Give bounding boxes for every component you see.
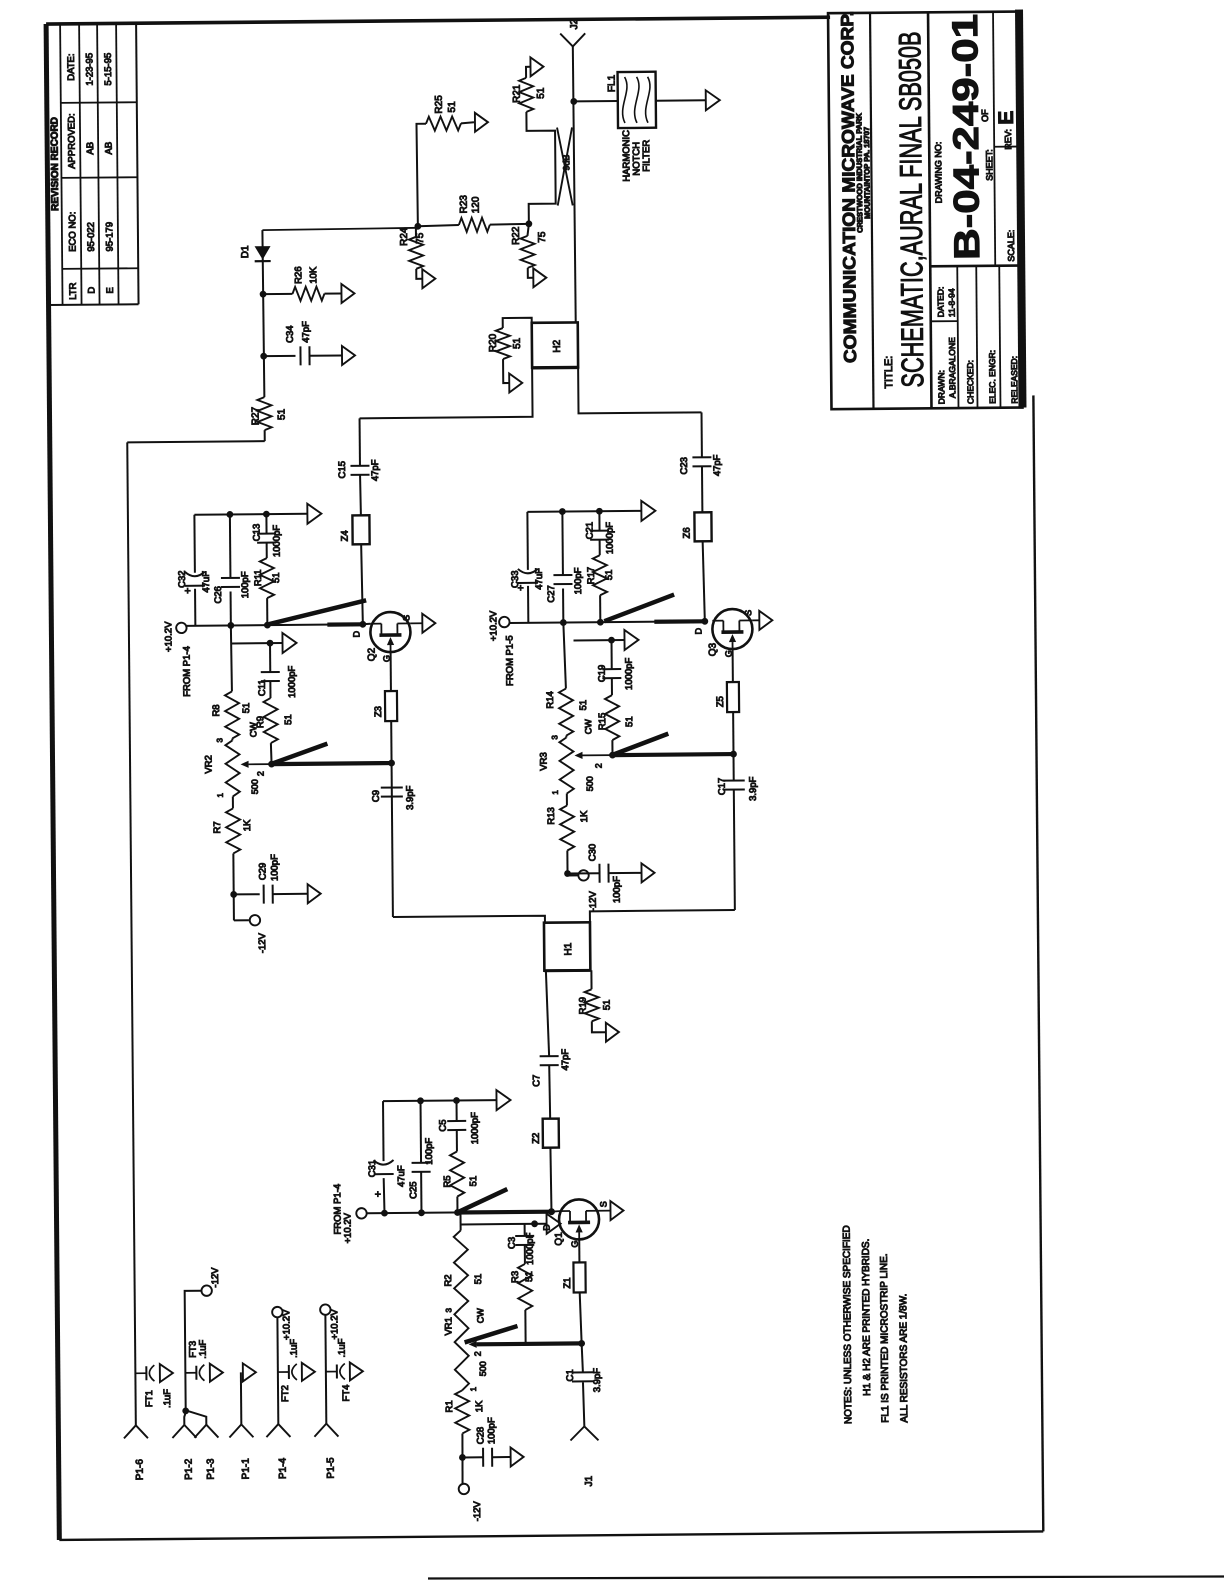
ground C29 [308,884,321,903]
svg-text:1000pF: 1000pF [604,522,615,555]
svg-text:FROM P1-4: FROM P1-4 [332,1184,343,1235]
impedance Z1 [562,1262,586,1292]
capacitor C15 [337,459,381,481]
terminal +10.2V (Q2 feed) [163,621,193,697]
svg-text:1: 1 [469,1386,478,1391]
svg-text:500: 500 [585,776,595,791]
svg-text:R2: R2 [443,1274,454,1286]
title block [828,10,1026,410]
wire C7 to H1 [546,971,549,1057]
feedthrough FT1 [135,1365,173,1408]
wire Z4-C15 [359,475,362,516]
svg-text:C26: C26 [213,586,224,604]
svg-text:1: 1 [551,790,560,795]
resistor R5 [442,1151,480,1212]
svg-text:SHEET:: SHEET: [984,149,994,181]
svg-text:Z3: Z3 [373,706,384,717]
svg-text:DATED:: DATED: [935,287,945,318]
transistor Q2 [351,612,411,663]
attenuator 9dB X [557,127,573,205]
svg-text:S: S [598,1201,608,1207]
wire Q3 output [703,541,705,621]
resistor R1 [444,1390,485,1433]
wedge Q1 drain [459,1189,507,1211]
wire Q3 gate [732,649,734,682]
svg-text:3: 3 [550,735,559,740]
connector P1-1 [229,1424,253,1479]
svg-text:C27: C27 [546,585,557,603]
svg-text:SCALE:: SCALE: [1006,230,1016,262]
svg-text:FILTER: FILTER [641,140,652,172]
capacitor C25 [408,1101,436,1213]
svg-text:51: 51 [447,101,458,113]
connector P1-4 [266,1424,290,1479]
svg-text:DRAWING NO:: DRAWING NO: [933,142,944,204]
svg-text:-12V: -12V [588,891,599,912]
resistor R20 [488,328,523,359]
svg-text:47pF: 47pF [370,459,381,481]
svg-text:1000pF: 1000pF [287,665,298,698]
wire P1-5 [324,1315,327,1424]
svg-text:47pF: 47pF [712,454,723,476]
svg-text:R11: R11 [253,569,264,586]
capacitor C17 [716,754,759,910]
svg-text:3.9pF: 3.9pF [405,785,416,810]
svg-text:120: 120 [471,196,482,213]
svg-text:REVISION RECORD: REVISION RECORD [49,117,61,211]
svg-text:47uF: 47uF [534,568,545,590]
terminal -12V (P1-2) [201,1267,221,1296]
svg-text:R13: R13 [546,807,557,825]
svg-text:R3: R3 [510,1271,521,1283]
capacitor C5 [438,1100,481,1151]
capacitor C21 [584,511,615,555]
svg-text:REV:: REV: [1003,129,1013,150]
svg-text:AB: AB [85,142,96,155]
wire -12V feed [185,1291,203,1411]
svg-text:R15: R15 [597,713,608,731]
node Q1 drain [548,1208,555,1215]
capacitor C32 [176,515,212,626]
wire Z6-C23 [701,466,703,512]
label C1 [565,1368,603,1393]
svg-text:TITLE:: TITLE: [883,356,895,389]
wire Q3 source gnd [752,619,759,621]
svg-text:.1uF: .1uF [337,1338,348,1357]
svg-text:1000pF: 1000pF [624,658,635,691]
resistor R3 [510,1264,536,1344]
svg-text:R26: R26 [293,266,304,284]
ground FT1 [160,1364,173,1382]
resistor R24 [399,226,426,269]
wire FL1 gnd [656,99,706,101]
wiper VR3 arrow [574,752,612,769]
svg-text:P1-2: P1-2 [184,1458,195,1480]
capacitor C11 [257,643,298,698]
svg-text:Q2: Q2 [367,647,378,661]
svg-text:10K: 10K [308,266,319,284]
svg-text:CHECKED:: CHECKED: [965,360,975,404]
terminal -12V (Q1) [459,1484,484,1522]
ground R24 [422,269,435,288]
svg-text:R7: R7 [212,821,223,833]
wire R14 row [563,623,566,689]
svg-text:+: + [182,588,194,594]
svg-text:C9: C9 [371,790,382,802]
svg-text:R20: R20 [488,333,499,352]
svg-text:100pF: 100pF [269,854,280,881]
svg-text:H1: H1 [563,942,574,955]
svg-text:Z2: Z2 [531,1133,542,1144]
diode D1 [240,228,418,262]
svg-text:47uF: 47uF [201,571,212,593]
terminal +10.2V (P1-4) [272,1307,292,1340]
svg-text:E: E [105,287,116,293]
svg-text:R1: R1 [444,1400,455,1412]
wire R27 node [259,230,267,397]
wire R24 gnd [416,269,422,279]
svg-text:3: 3 [215,738,224,743]
svg-text:1-23-95: 1-23-95 [84,53,95,86]
svg-text:R9: R9 [255,716,266,728]
ground Q1 gate rail [547,1214,561,1234]
wire output trunk [570,46,579,322]
svg-text:1000pF: 1000pF [525,1232,536,1265]
wire Q2 gate [390,652,392,691]
svg-text:MOUNTAINTOP PA. 18707: MOUNTAINTOP PA. 18707 [862,127,872,219]
svg-text:VR2: VR2 [203,755,214,774]
wire R13 to -12V [564,850,578,877]
svg-text:47pF: 47pF [301,321,312,343]
svg-text:-12V: -12V [210,1267,221,1288]
resistor R7 [212,796,253,853]
svg-text:ECO NO:: ECO NO: [67,212,78,252]
svg-text:C1: C1 [565,1369,576,1381]
wedge Q2 wiper [273,744,327,763]
ground R21 [530,57,543,76]
svg-text:C17: C17 [717,778,728,796]
resistor R23 [418,194,529,232]
label harmonic notch filter [621,130,652,182]
svg-text:S: S [743,610,753,616]
wiper VR2 arrow [241,760,272,776]
svg-text:P1-4: P1-4 [278,1457,289,1479]
wire coupler bracket [526,112,555,224]
ground FT3 [210,1364,223,1382]
svg-text:R25: R25 [434,95,445,114]
ground Q1 rail [496,1090,510,1110]
svg-text:P1-6: P1-6 [135,1459,146,1481]
svg-text:FL1 IS PRINTED MICROSTRIP LINE: FL1 IS PRINTED MICROSTRIP LINE. [879,1253,891,1422]
svg-text:100pF: 100pF [424,1138,435,1165]
wire R27 left [264,430,266,441]
svg-text:C30: C30 [587,844,598,862]
wire P1-1 gnd [240,1372,242,1424]
capacitor C27 [545,511,584,622]
svg-text:1K: 1K [579,810,590,822]
svg-text:Z6: Z6 [682,527,693,538]
svg-text:.1uF: .1uF [162,1389,173,1408]
wire C9 to H1 [393,916,545,924]
ground FT2 [302,1363,315,1381]
resistor R15 [597,695,636,755]
svg-text:51: 51 [276,408,287,420]
svg-text:LTR: LTR [68,282,79,299]
svg-text:C23: C23 [679,457,690,475]
ground Q2 source [422,614,435,633]
wire VR3 wiper thick [613,754,734,755]
wire Q1 gate [578,1239,580,1262]
wire R2 row [457,1212,460,1230]
feedthrough FT3 [185,1339,209,1380]
wire Q1 drain lead [551,1210,559,1213]
ground Q1 source [610,1201,623,1220]
svg-text:C28: C28 [475,1427,486,1445]
resistor R8 [211,691,252,738]
ground C34 [342,346,355,365]
svg-text:3: 3 [444,1308,453,1313]
svg-text:R8: R8 [211,704,222,716]
svg-text:.1uF: .1uF [289,1339,300,1358]
wire Q1 bypass rail [383,1097,497,1105]
wire Q1 gate rail [461,1220,547,1228]
resistor R9 [255,698,295,764]
wire R25 gnd [461,122,474,123]
svg-text:Q1: Q1 [554,1232,565,1246]
wire C17 to H1 [590,910,735,922]
svg-text:2: 2 [256,771,266,776]
capacitor C34 [263,321,342,366]
wire Q2 +10.2V bus [186,621,363,629]
svg-text:C34: C34 [285,325,296,343]
svg-text:C21: C21 [584,522,595,540]
resistor R21 [512,78,547,112]
capacitor C19 [596,640,634,695]
svg-text:D: D [86,287,97,294]
potentiometer VR2 [203,722,260,798]
svg-text:J1: J1 [584,1475,595,1486]
wire P1-6 riser [127,441,264,442]
svg-text:R19: R19 [578,997,589,1015]
wire Q2 output [361,544,363,624]
svg-text:500: 500 [478,1361,488,1376]
svg-text:SCHEMATIC,AURAL FINAL SB050B: SCHEMATIC,AURAL FINAL SB050B [892,31,930,387]
svg-text:.1uF: .1uF [198,1339,209,1358]
svg-text:100pF: 100pF [612,876,623,903]
wire Q2 gate rail [231,640,282,647]
node VR2 wiper [268,761,275,768]
svg-text:R21: R21 [512,84,523,103]
potentiometer VR1 [443,1307,488,1391]
hybrid H1 [544,922,590,970]
svg-text:Z5: Z5 [715,696,726,707]
svg-text:51: 51 [624,716,635,727]
connector P1-5 [314,1424,338,1479]
impedance Z6 [681,512,711,541]
svg-text:DATE:: DATE: [66,53,77,80]
wire R21 gnd [526,67,531,78]
capacitor C33 [509,512,545,623]
svg-text:51: 51 [473,1274,484,1285]
terminal -12V (Q2) [250,915,269,953]
svg-text:Q3: Q3 [708,642,719,656]
capacitor C30 [567,843,642,903]
svg-text:APPROVED:: APPROVED: [66,113,77,169]
ground FT4 [350,1362,363,1380]
scan edge artifact line [428,1577,1224,1579]
svg-text:VR1: VR1 [443,1317,454,1336]
svg-text:VR3: VR3 [538,752,549,771]
svg-text:11-8-94: 11-8-94 [946,288,956,317]
capacitor C31 [367,1101,408,1213]
ground Q3 gate rail [624,630,638,650]
wire Q2 bypass rail [194,510,307,518]
capacitor C3 [507,1224,536,1265]
feedthrough FT4 [326,1338,353,1401]
svg-text:NOTES: UNLESS OTHERWISE SPECIF: NOTES: UNLESS OTHERWISE SPECIFIED [842,1225,855,1424]
ground Q2 rail [307,504,321,524]
svg-text:H2: H2 [552,339,563,352]
wire Q1 +10.2V bus [366,1208,551,1216]
capacitor C13 [251,514,282,558]
svg-text:100pF: 100pF [573,567,584,594]
svg-text:1K: 1K [242,819,253,831]
node R24/R25 junction [414,223,421,230]
capacitor C29 [233,854,307,904]
svg-text:P1-3: P1-3 [206,1458,217,1480]
svg-text:J2: J2 [569,18,580,29]
svg-text:75: 75 [415,232,426,244]
resistor R22 [511,224,548,268]
svg-text:+: + [515,585,527,591]
wedge Q2 drain [269,600,366,624]
impedance Z5 [715,682,739,712]
connector P1-3 [194,1425,218,1480]
svg-text:1: 1 [216,793,225,798]
resistor R11 [253,558,283,625]
svg-text:Z4: Z4 [340,530,351,541]
resistor R14 [545,688,589,735]
resistor R26 [263,266,342,301]
svg-text:H1 & H2 ARE PRINTED HYBRIDS.: H1 & H2 ARE PRINTED HYBRIDS. [861,1239,873,1396]
wire R20 to H2 [503,318,532,328]
svg-text:51: 51 [283,714,294,725]
svg-text:-12V: -12V [257,932,268,953]
capacitor C7 [531,1049,571,1087]
svg-text:AB: AB [104,142,115,155]
wire P1-4 [276,1317,279,1424]
svg-text:R14: R14 [545,691,556,709]
svg-text:R17: R17 [586,567,597,585]
connector P1-2 [172,1425,196,1480]
svg-text:P1-1: P1-1 [241,1458,252,1480]
svg-text:C7: C7 [531,1075,542,1087]
ground Q3 rail [641,501,655,521]
potentiometer VR3 [538,719,595,795]
wire Z2-C7 [548,1065,551,1119]
svg-text:B-04-249-01: B-04-249-01 [944,14,987,260]
transistor Q1 [541,1199,608,1248]
svg-text:C13: C13 [251,524,262,542]
svg-text:C25: C25 [408,1181,419,1199]
transistor Q3 [693,609,753,658]
svg-text:1K: 1K [474,1400,485,1412]
ground R22 [533,268,546,287]
svg-text:47pF: 47pF [560,1049,571,1071]
svg-text:51: 51 [271,572,282,583]
svg-text:1000pF: 1000pF [271,525,282,558]
ground P1-1 [243,1363,256,1381]
wire Q2 drain lead [363,623,371,626]
svg-text:51: 51 [578,700,589,711]
wire R8 row [231,625,232,691]
resistor R27 [250,397,287,430]
wedge Q3 drain [604,595,674,622]
wire R1 to -12V [459,1433,466,1483]
wire Z5 to wiper node [730,712,737,757]
ground Q2 gate rail [282,633,296,653]
svg-text:1000pF: 1000pF [470,1112,481,1145]
ground C28 [511,1447,524,1466]
wire R19 gnd [592,1021,606,1032]
svg-text:CW: CW [583,719,593,735]
svg-text:R5: R5 [442,1175,453,1187]
wire Q1 source gnd [599,1210,610,1212]
ground R20 [509,373,522,392]
svg-text:FT4: FT4 [341,1385,352,1402]
wedge Q1 wiper [464,1326,517,1342]
connector J2 [560,18,585,46]
svg-text:FL1: FL1 [607,74,618,92]
wire Q2 source gnd [410,622,422,624]
feedthrough FT2 [278,1339,301,1402]
svg-text:R23: R23 [459,195,470,214]
node Q2 drain [359,621,366,628]
ground R19 [606,1023,619,1042]
svg-text:100pF: 100pF [486,1417,497,1444]
wire Q2 feed to H2 [359,368,532,419]
svg-text:+10.2V: +10.2V [163,621,174,652]
svg-text:9dB: 9dB [561,154,571,170]
svg-text:ALL RESISTORS ARE 1/8W.: ALL RESISTORS ARE 1/8W. [898,1294,910,1423]
connector P1-6 [124,1425,148,1480]
svg-text:51: 51 [602,1000,613,1011]
resistor R17 [586,555,616,622]
svg-text:ELEC. ENGR:: ELEC. ENGR: [987,350,997,404]
capacitor C9 [371,763,417,917]
ground Q3 source [759,611,772,630]
impedance Z4 [339,515,369,544]
wire Z1 to wiper node [578,1292,585,1346]
svg-text:95-022: 95-022 [86,222,97,252]
wire R7 to -12V [230,853,249,920]
node R22/R23 junction [525,220,532,227]
svg-text:3.9pF: 3.9pF [748,776,759,801]
terminal -12V (Q3) [578,870,599,911]
node VR3 wiper [609,752,616,759]
svg-text:S: S [401,615,411,621]
wire R20 gnd [503,359,509,383]
hybrid H2 [532,322,578,367]
wire Q3 feed to H2 [578,366,701,413]
svg-text:95-179: 95-179 [104,222,115,252]
wire Q3 bypass rail [527,507,641,515]
svg-text:C5: C5 [438,1119,449,1131]
revision record table [46,23,138,305]
wire Q3 gate rail [573,637,624,644]
capacitor C26 [212,514,251,625]
capacitor C28 [462,1417,511,1467]
